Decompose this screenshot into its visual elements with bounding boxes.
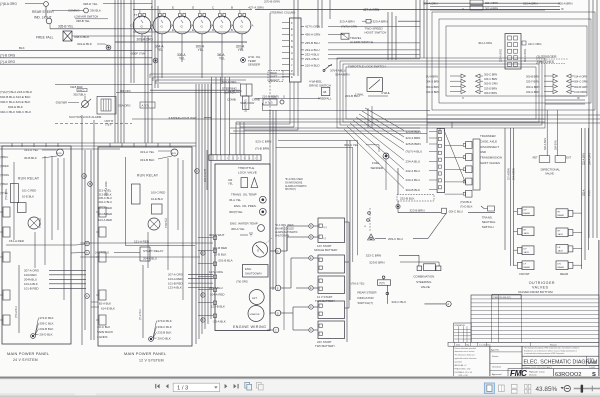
svg-text:300-D GRN: 300-D GRN xyxy=(484,82,498,86)
terminal D engine right 2 xyxy=(270,310,281,316)
terminal C battery3 a xyxy=(296,305,318,309)
svg-text:(?)BLU: (?)BLU xyxy=(0,155,8,159)
label 1318 OPS xyxy=(120,89,131,93)
connector 323-A BRN splice xyxy=(340,19,421,23)
svg-text:333-C BLK: 333-C BLK xyxy=(391,300,406,304)
svg-text:ENG. WATER TEMP: ENG. WATER TEMP xyxy=(230,222,258,226)
terminal D bundle1 xyxy=(201,251,205,255)
wire vertical x270 xyxy=(269,13,271,117)
svg-text:S: S xyxy=(257,249,259,253)
svg-text:DRIVE SWITCH: DRIVE SWITCH xyxy=(309,84,331,88)
svg-text:FREEFALL: FREEFALL xyxy=(318,96,332,100)
svg-text:C: C xyxy=(150,24,152,28)
svg-text:243-A BLU: 243-A BLU xyxy=(95,251,109,255)
connector outrigger left group xyxy=(450,74,483,100)
note air cooled shutdown xyxy=(265,224,298,244)
svg-text:NONE: NONE xyxy=(588,361,597,365)
wire 523-B BRN xyxy=(255,147,353,151)
svg-text:427-A GRN: 427-A GRN xyxy=(248,5,263,9)
svg-text:FUEL: FUEL xyxy=(372,161,380,165)
wire vertical x284 xyxy=(283,226,285,330)
wire 523-C BRN xyxy=(256,140,358,144)
svg-text:36-A YEL: 36-A YEL xyxy=(229,198,242,202)
gauge G2 xyxy=(153,10,171,42)
wire dashed bottom left xyxy=(55,123,132,125)
wire steering column rows xyxy=(301,25,420,68)
svg-text:LR: LR xyxy=(558,247,561,249)
svg-text:specified.: specified. xyxy=(455,361,463,363)
panel main power 24V border xyxy=(2,146,71,344)
svg-text:A: A xyxy=(83,175,85,178)
lamp rear steer indicator light xyxy=(32,2,54,24)
wire battery bus vertical xyxy=(348,222,350,308)
titleblock drawn column xyxy=(490,346,522,377)
connector outrigger right group xyxy=(544,74,580,100)
svg-text:G: G xyxy=(241,24,244,28)
svg-text:107A ORG: 107A ORG xyxy=(209,270,224,274)
titleblock operator grid xyxy=(454,323,472,342)
label transfer case wires xyxy=(406,130,438,192)
svg-text:234-A BLU: 234-A BLU xyxy=(406,160,421,164)
gauge row side letters xyxy=(130,24,254,28)
svg-text:RET: RET xyxy=(533,157,538,160)
bus wire gauge bottom xyxy=(133,28,247,32)
svg-text:RT: RT xyxy=(524,230,528,232)
svg-text:II: II xyxy=(462,96,464,100)
svg-text:300-C BRN: 300-C BRN xyxy=(484,73,497,77)
svg-text:BEAM: BEAM xyxy=(524,266,530,269)
svg-text:E: E xyxy=(277,286,279,290)
wire top lines right xyxy=(264,0,330,28)
svg-text:204-C BLU: 204-C BLU xyxy=(99,200,112,204)
switch low air xyxy=(74,15,108,23)
svg-text:300-F BRN: 300-F BRN xyxy=(484,91,497,95)
svg-text:338-D BLK: 338-D BLK xyxy=(74,35,90,39)
connector outrigger center strip xyxy=(500,34,528,70)
terminal E battery2 b xyxy=(296,286,318,290)
titleblock rev header tag xyxy=(492,294,521,299)
svg-text:D: D xyxy=(310,236,312,239)
label engine wiring title xyxy=(233,325,266,329)
svg-text:NEUTRAL: NEUTRAL xyxy=(482,220,496,224)
svg-text:(?)(?): (?)(?) xyxy=(588,190,591,196)
svg-text:E: E xyxy=(192,28,194,32)
svg-text:427-A GRN: 427-A GRN xyxy=(363,8,380,12)
svg-text:JACK: JACK xyxy=(558,233,564,236)
svg-text:300-F BLA 323-E BLK: 300-F BLA 323-E BLK xyxy=(0,100,31,104)
svg-text:YEL: YEL xyxy=(228,182,233,186)
svg-text:(?)-A ORG: (?)-A ORG xyxy=(0,60,16,64)
label run relay panel2 xyxy=(137,174,159,178)
wire vertical x353-357 pair xyxy=(353,141,358,263)
wire 304-A YEL xyxy=(155,42,164,78)
svg-text:602-E BLK: 602-E BLK xyxy=(8,105,24,109)
label panel2 ORG rotated xyxy=(105,181,108,196)
svg-text:000-B WHT: 000-B WHT xyxy=(204,168,207,182)
svg-text:233-4 BLU: 233-4 BLU xyxy=(406,178,420,182)
svg-text:G: G xyxy=(141,24,144,28)
svg-text:TRANSFER: TRANSFER xyxy=(480,134,496,138)
svg-text:C: C xyxy=(275,328,277,332)
svg-text:523-C BRN: 523-C BRN xyxy=(256,140,272,144)
label TT gauge1 xyxy=(134,13,138,17)
svg-text:SWITCH(?): SWITCH(?) xyxy=(357,301,373,305)
svg-text:ENG. OIL PRES.: ENG. OIL PRES. xyxy=(234,204,257,208)
svg-text:33lA ORG: 33lA ORG xyxy=(118,104,131,108)
wire steering col drops xyxy=(236,82,298,130)
svg-text:-20l-C BLU: -20l-C BLU xyxy=(448,210,463,214)
terminal E battery2 a xyxy=(296,256,318,260)
svg-text:III: III xyxy=(561,7,564,11)
switch suction lock alarm xyxy=(69,96,113,126)
svg-text:RUN: RUN xyxy=(57,153,62,155)
wire vertical bundle x196-212 xyxy=(196,84,211,344)
valve directional xyxy=(533,110,572,176)
wire vertical x415 bundle top xyxy=(416,0,424,58)
svg-text:313-A YEL: 313-A YEL xyxy=(99,189,112,193)
svg-text:101-B RED: 101-B RED xyxy=(24,287,39,291)
ground triangle xyxy=(368,234,375,240)
switch crab steering xyxy=(222,80,279,110)
svg-text:205-C BLU: 205-C BLU xyxy=(99,196,112,200)
battery 12V single xyxy=(314,218,345,252)
svg-text:III: III xyxy=(577,96,580,100)
svg-text:338-D YEL: 338-D YEL xyxy=(83,2,98,6)
svg-text:C: C xyxy=(310,329,312,332)
lamp run panel2 xyxy=(140,149,178,162)
label left edge wires xyxy=(0,155,9,195)
svg-text:JACK: JACK xyxy=(524,232,530,235)
svg-text:300-G BRN: 300-G BRN xyxy=(526,85,540,89)
wire ground drop with C markers xyxy=(365,208,370,232)
svg-text:CRAB: CRAB xyxy=(252,97,260,101)
wire 335-B YEL xyxy=(50,24,152,29)
svg-text:A: A xyxy=(447,302,449,306)
svg-text:210-A BLD: 210-A BLD xyxy=(305,64,320,68)
svg-text:The tolerances below are: The tolerances below are xyxy=(455,354,475,357)
svg-text:STEERING: STEERING xyxy=(416,280,432,284)
sender trans oil temp xyxy=(229,193,266,204)
svg-text:232-B BLK: 232-B BLK xyxy=(400,197,415,201)
svg-text:LF: LF xyxy=(524,264,527,266)
svg-text:4 WHL: 4 WHL xyxy=(381,91,391,95)
svg-text:304 BRN: 304 BRN xyxy=(555,140,558,150)
label tape back panel2 xyxy=(97,325,113,339)
svg-text:101-B RED: 101-B RED xyxy=(168,281,183,285)
svg-text:(?)BLK: (?)BLK xyxy=(0,182,8,186)
wire vertical x388 bundle xyxy=(388,12,396,60)
svg-text:232-B BLK: 232-B BLK xyxy=(158,331,172,335)
svg-text:VALVE: VALVE xyxy=(545,172,554,176)
wire stub right cluster xyxy=(545,96,585,104)
svg-text:G: G xyxy=(221,24,224,28)
svg-text:(?)-B BRN: (?)-B BRN xyxy=(255,147,269,151)
svg-text:300-B BRN: 300-B BRN xyxy=(526,75,539,79)
connector steering column xyxy=(270,11,301,83)
svg-text:10l-C BLK: 10l-C BLK xyxy=(97,325,110,329)
label rotated right bundle xyxy=(583,153,592,165)
svg-text:SWITCHES: SWITCHES xyxy=(537,60,555,64)
svg-text:A: A xyxy=(252,24,254,28)
svg-text:D: D xyxy=(291,39,293,43)
svg-text:(?)A ORG: (?)A ORG xyxy=(5,189,8,200)
svg-text:SENDER: SENDER xyxy=(371,166,384,170)
svg-text:IND. LIGHT: IND. LIGHT xyxy=(34,16,52,20)
gauge G4 xyxy=(193,10,211,42)
svg-text:1: 1 xyxy=(249,158,251,160)
wire 323-C BRN lower xyxy=(366,253,419,263)
svg-text:RT: RT xyxy=(558,211,562,213)
label drawing number 63R0002 xyxy=(553,369,599,378)
svg-text:304-A ORG: 304-A ORG xyxy=(524,49,527,62)
svg-text:104-A RED: 104-A RED xyxy=(168,277,182,281)
svg-text:30-B BLK: 30-B BLK xyxy=(24,156,37,160)
svg-text:614-E BLK: 614-E BLK xyxy=(101,307,115,311)
svg-text:ALT: ALT xyxy=(252,296,257,300)
svg-text:43.85%: 43.85% xyxy=(536,386,558,393)
wire 316-A YEL xyxy=(217,42,225,84)
svg-text:12 V SYSTEM: 12 V SYSTEM xyxy=(139,359,164,363)
svg-text:151-A RED: 151-A RED xyxy=(134,240,150,244)
svg-text:COMB.: COMB. xyxy=(227,97,237,101)
wire 000-A WHT ground xyxy=(209,233,253,237)
svg-text:JUMPER+000-B WHT: JUMPER+000-B WHT xyxy=(168,116,197,120)
connector suction lock block xyxy=(97,97,116,115)
label cluster wire list xyxy=(0,90,33,114)
svg-text:302(?)BLA: 302(?)BLA xyxy=(73,93,86,97)
svg-text:20l-D BLK: 20l-D BLK xyxy=(158,336,171,340)
panel main power 12V border xyxy=(98,147,192,346)
label outrigger rear xyxy=(560,272,569,276)
svg-text:602-B BLA 343-E BLK: 602-B BLA 343-E BLK xyxy=(0,95,32,99)
svg-text:373-D BLK: 373-D BLK xyxy=(158,319,172,323)
svg-text:Date: Date xyxy=(456,343,461,346)
terminal D battery1 a xyxy=(296,224,318,228)
svg-text:SINGLE BATTERY: SINGLE BATTERY xyxy=(314,248,338,252)
wire outrigger loop bottom drops xyxy=(440,122,452,134)
svg-text:207-A ORG: 207-A ORG xyxy=(24,269,40,273)
svg-text:This drawing is the property o: This drawing is the property of FMC Corp… xyxy=(524,347,580,350)
svg-text:A 7(?): A 7(?) xyxy=(265,101,273,105)
svg-text:START RELAY: START RELAY xyxy=(143,249,164,253)
lamp run panel1 xyxy=(24,148,64,160)
svg-text:304-A BRN: 304-A BRN xyxy=(544,138,547,150)
svg-text:10-E BLK: 10-E BLK xyxy=(22,195,34,199)
wire 82-A BLK labels xyxy=(91,302,115,311)
svg-text:(?)A BLU: (?)A BLU xyxy=(164,218,167,228)
label main power panel 24V xyxy=(7,351,50,362)
svg-text:123-A BLK: 123-A BLK xyxy=(168,286,182,290)
label 300-BLA boxed xyxy=(73,88,87,96)
label outrigger right group wires xyxy=(526,75,588,95)
svg-text:A: A xyxy=(291,51,293,55)
svg-text:UP: UP xyxy=(524,249,528,251)
terminal A mid xyxy=(71,250,89,255)
svg-text:335-B YEL: 335-B YEL xyxy=(58,25,74,29)
svg-text:C: C xyxy=(230,24,232,28)
svg-text:INDICATOR: INDICATOR xyxy=(357,296,374,300)
svg-text:OUTRIGGER: OUTRIGGER xyxy=(537,55,558,59)
terminal D bundle2 xyxy=(201,293,205,297)
svg-text:(?)ORG: (?)ORG xyxy=(0,173,9,177)
sender eng water temp xyxy=(230,222,264,232)
switch throttle lock xyxy=(323,64,386,76)
svg-text:C: C xyxy=(365,225,367,227)
wire 320-A YEL xyxy=(236,42,245,52)
svg-text:TRAN.: TRAN. xyxy=(270,71,278,75)
wire vertical x427 xyxy=(426,0,428,143)
solenoid free fall xyxy=(36,31,152,41)
relay run panel2 xyxy=(131,184,167,230)
svg-text:A 7(?): A 7(?) xyxy=(142,104,150,108)
svg-text:323-A ORG: 323-A ORG xyxy=(500,49,503,62)
wire 318-A ORG top-left xyxy=(0,2,43,6)
svg-text:301-E BLK: 301-E BLK xyxy=(77,42,93,46)
svg-text:313-B BLK: 313-B BLK xyxy=(140,158,155,162)
note air cooled upper xyxy=(285,178,307,191)
svg-text:233-4 BLU: 233-4 BLU xyxy=(305,57,319,61)
switch 4 wheel drive xyxy=(309,78,391,97)
svg-text:20l-D BLK: 20l-D BLK xyxy=(39,333,52,337)
label rotated right top xyxy=(583,189,591,196)
logo FMC xyxy=(508,369,553,378)
svg-text:C: C xyxy=(291,33,293,37)
svg-text:PER CR-104-2(?): PER CR-104-2(?) xyxy=(494,297,512,299)
svg-text:P: P xyxy=(291,69,293,73)
svg-text:-(?)A & YEL-: -(?)A & YEL- xyxy=(350,282,365,286)
sender eng oil pres xyxy=(229,204,266,215)
svg-text:E: E xyxy=(172,28,174,32)
label 231B OPS xyxy=(228,89,242,93)
label jumper rotated xyxy=(244,99,247,112)
connector strip 13-pin xyxy=(209,155,261,161)
wire outrigger right verticals xyxy=(582,128,589,269)
svg-text:322-A BRN: 322-A BRN xyxy=(583,153,586,165)
label outrigger front xyxy=(519,272,529,276)
svg-text:C: C xyxy=(212,6,215,10)
svg-text:FREE FALL: FREE FALL xyxy=(36,36,54,40)
gauge G6 xyxy=(233,10,251,42)
svg-text:(?)A(?) BLA 243-D BLK: (?)A(?) BLA 243-D BLK xyxy=(0,90,33,94)
svg-text:VALVE: VALVE xyxy=(421,285,430,289)
terminal D battery1 b xyxy=(296,235,318,239)
wire 210-B BLU xyxy=(255,94,320,98)
wire y110 bus xyxy=(262,103,430,111)
svg-text:RUN: RUN xyxy=(171,153,176,155)
svg-text:B: B xyxy=(231,6,233,10)
label main power panel 12V xyxy=(124,351,167,363)
svg-text:OPERATOR: OPERATOR xyxy=(454,324,465,327)
wire top right horizontals xyxy=(424,3,560,10)
svg-text:151-A RED: 151-A RED xyxy=(9,239,25,243)
svg-text:1: 1 xyxy=(233,158,235,160)
svg-text:300(?)YEL: 300(?)YEL xyxy=(229,210,243,214)
svg-text:5U-A BRN: 5U-A BRN xyxy=(426,75,438,79)
wire diagonal strip xyxy=(444,130,466,184)
svg-text:340-C BLK 606-C BLK: 340-C BLK 606-C BLK xyxy=(0,110,32,114)
svg-text:SHIFT VALVES: SHIFT VALVES xyxy=(480,161,500,165)
svg-text:E: E xyxy=(291,27,293,31)
battery 24V two a xyxy=(318,301,345,319)
svg-text:JACK: JACK xyxy=(558,249,564,252)
svg-text:100-C RED: 100-C RED xyxy=(151,191,165,195)
svg-text:-201-B BLA: -201-B BLA xyxy=(218,259,233,263)
svg-text:MAIN POWER PANEL: MAIN POWER PANEL xyxy=(124,351,167,356)
svg-text:TRANSMISSION: TRANSMISSION xyxy=(480,156,502,160)
svg-text:323-C BRN: 323-C BRN xyxy=(484,77,497,81)
svg-text:ENG.: ENG. xyxy=(245,267,252,271)
valve outrigger front RT JACK xyxy=(514,227,535,236)
svg-text:323-A BRN: 323-A BRN xyxy=(523,2,537,6)
relay start panel2 xyxy=(95,247,164,261)
connector top boxed pair xyxy=(423,0,572,11)
battery 24V two b xyxy=(315,321,345,348)
terminal 300F WA xyxy=(130,51,158,62)
svg-text:(?)A BLU: (?)A BLU xyxy=(38,218,41,228)
svg-text:313-A YEL: 313-A YEL xyxy=(24,148,39,152)
label transfer case title xyxy=(480,134,502,165)
svg-text:313-B BLK: 313-B BLK xyxy=(99,192,112,196)
svg-text:TRANS.: TRANS. xyxy=(482,216,493,220)
svg-text:ON AIR ENGINE: ON AIR ENGINE xyxy=(285,181,303,184)
svg-text:304-A BRN: 304-A BRN xyxy=(589,153,592,165)
wire mid horizontal y128-131 xyxy=(230,128,420,131)
svg-text:MAIN POWER PANEL: MAIN POWER PANEL xyxy=(7,351,50,356)
bus wire gauge top with letters xyxy=(133,6,252,10)
svg-text:(?)(?)-4 BLU: (?)(?)-4 BLU xyxy=(406,150,423,154)
svg-text:B: B xyxy=(291,45,293,49)
svg-text:104-B RED: 104-B RED xyxy=(98,212,112,216)
svg-text:23-B BLK: 23-B BLK xyxy=(214,253,226,257)
svg-text:232-4 BLU: 232-4 BLU xyxy=(305,53,319,57)
svg-text:304-D BRN: 304-D BRN xyxy=(426,80,439,84)
svg-text:THROTTLE LOCK SWITCH: THROTTLE LOCK SWITCH xyxy=(348,64,386,68)
label 232-B BLK boxed xyxy=(397,168,434,201)
svg-text:104-A RED: 104-A RED xyxy=(210,293,224,297)
svg-text:B: B xyxy=(231,28,233,32)
wire 151-A RED panel2 xyxy=(125,240,195,246)
svg-text:B: B xyxy=(89,183,91,186)
svg-text:DECIMALS: .XX ± .03: DECIMALS: .XX ± .03 xyxy=(455,371,473,374)
titleblock small row xyxy=(522,366,599,370)
svg-text:TRANS. OIL TEMP: TRANS. OIL TEMP xyxy=(231,193,257,197)
svg-text:Reproduction, use or disclosur: Reproduction, use or disclosure in whole… xyxy=(524,349,578,352)
wire 323-B BRN xyxy=(398,209,441,213)
bus wire 300-A ORG xyxy=(0,60,152,64)
svg-text:F: F xyxy=(151,28,153,32)
svg-text:302-A: 302-A xyxy=(583,189,586,196)
wire long horizontal 119 xyxy=(132,118,545,120)
wire jumper 000-B WHT xyxy=(168,116,212,120)
svg-text:*IF A ORG USED: *IF A ORG USED xyxy=(285,178,303,181)
label panel1 bottom stack xyxy=(39,316,53,337)
svg-text:STARTER: STARTER xyxy=(250,313,260,316)
terminal D panel2 right xyxy=(195,169,200,174)
terminal A rear steer xyxy=(446,301,451,306)
svg-text:C: C xyxy=(190,24,192,28)
wire 427-A GRN bus label xyxy=(255,8,560,12)
svg-text:323-A BRN: 323-A BRN xyxy=(373,20,388,24)
svg-text:24 V SYSTEM: 24 V SYSTEM xyxy=(13,358,38,362)
svg-text:C: C xyxy=(210,24,212,28)
svg-text:304-A BRN: 304-A BRN xyxy=(423,2,437,6)
svg-text:dimensions are in inches.: dimensions are in inches. xyxy=(455,351,476,353)
svg-text:ELEC. SCHEMATIC DIAGRAM: ELEC. SCHEMATIC DIAGRAM xyxy=(524,359,598,365)
svg-text:II: II xyxy=(462,7,464,11)
svg-text:1 / 3: 1 / 3 xyxy=(177,386,188,392)
svg-text:-23-A BLK: -23-A BLK xyxy=(213,320,226,324)
solenoid free fall 2 xyxy=(318,87,332,100)
